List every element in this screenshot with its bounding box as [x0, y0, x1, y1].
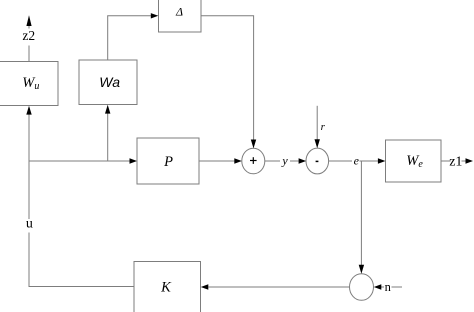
summing junction S2 — [306, 148, 329, 174]
arrowhead into S1 left — [234, 158, 242, 163]
wire S2 to e — [329, 160, 352, 162]
wire branch up to Wa — [107, 112, 109, 161]
arrowhead into Delta — [151, 13, 159, 18]
wire Wu to z2 — [28, 46, 30, 62]
minus sign in S2 — [316, 160, 319, 162]
wire K output left and up to u — [29, 233, 134, 287]
arrowhead u into P left — [130, 158, 138, 163]
plus sign in S1 — [250, 157, 257, 164]
block Wa — [79, 60, 137, 105]
block We — [386, 140, 442, 182]
svg-text:u: u — [26, 217, 33, 232]
wire e to We — [360, 160, 379, 162]
arrowhead n into S3 — [374, 284, 382, 289]
arrowhead u into Wu bottom — [26, 106, 31, 115]
arrowhead into K right — [201, 284, 209, 289]
svg-text:y: y — [281, 154, 288, 168]
arrowhead into S1 top — [251, 140, 256, 149]
wire node u to P — [29, 160, 130, 162]
wire Wa to Delta — [108, 16, 152, 60]
arrowhead into S2 left — [299, 158, 307, 163]
wire S3 to K — [209, 286, 350, 288]
arrowhead z1 output — [466, 158, 474, 163]
wire We to z1 — [441, 160, 451, 162]
wire node e down to S3 — [360, 161, 362, 266]
wire S1 to y — [265, 160, 280, 162]
wire u up to Wu — [28, 113, 30, 219]
wire n to S3 — [381, 286, 384, 288]
block K — [134, 262, 201, 312]
block Wu — [0, 62, 58, 106]
arrowhead z2 output — [26, 15, 31, 26]
svg-text:We: We — [406, 153, 423, 170]
svg-text:z1: z1 — [449, 154, 462, 169]
wire y to S2 — [290, 160, 299, 162]
summing junction S3 — [350, 274, 374, 301]
svg-text:P: P — [163, 154, 173, 170]
svg-text:K: K — [160, 280, 172, 296]
wire r input — [316, 106, 318, 141]
svg-text:z2: z2 — [22, 28, 35, 43]
wire n input — [392, 286, 403, 288]
arrowhead e into S3 top — [359, 265, 364, 274]
svg-text:Δ: Δ — [175, 4, 183, 18]
svg-text:n: n — [385, 280, 392, 294]
svg-text:Wa: Wa — [99, 74, 120, 90]
wire Delta to S1 — [201, 16, 254, 141]
svg-text:r: r — [321, 121, 326, 133]
arrowhead into We — [378, 158, 386, 163]
wire z1 to output arrow — [462, 160, 466, 162]
svg-text:Wu: Wu — [22, 75, 39, 92]
wire z2 arrow stem — [28, 26, 30, 29]
arrowhead r into S2 top — [315, 139, 320, 148]
block P — [137, 138, 199, 184]
arrowhead into Wa bottom — [105, 105, 110, 114]
block Delta — [159, 0, 202, 32]
svg-text:e: e — [354, 154, 360, 168]
summing junction S1 — [242, 148, 265, 174]
wire P to S1 — [199, 160, 235, 162]
